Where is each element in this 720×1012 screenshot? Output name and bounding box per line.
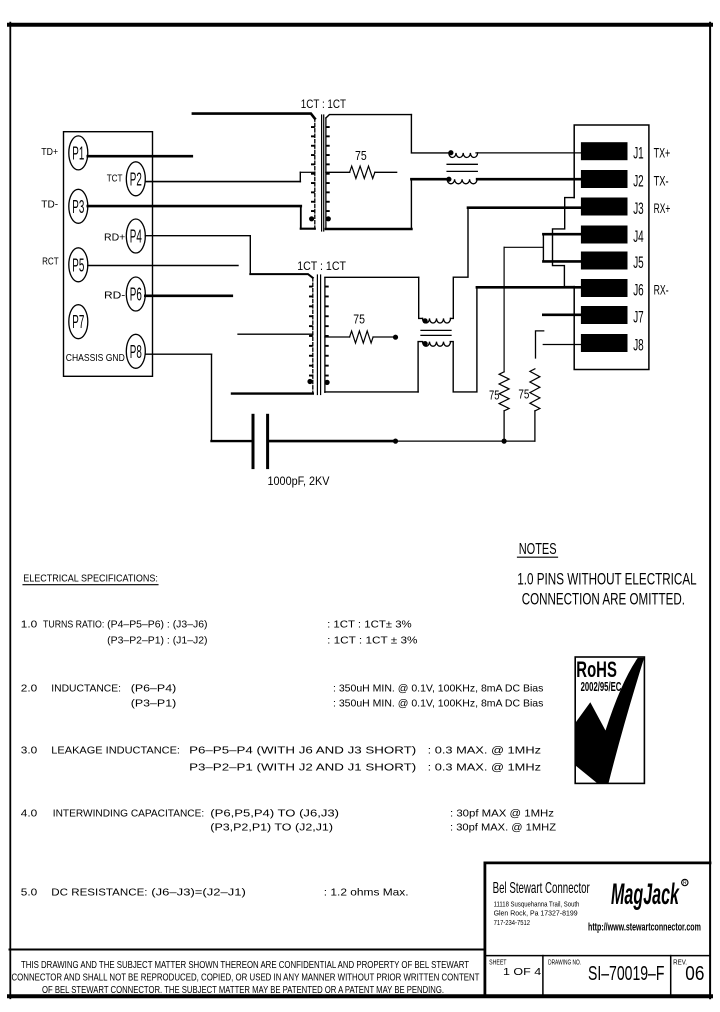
svg-text:: 0.3 MAX. @ 1MHz: : 0.3 MAX. @ 1MHz [428,763,541,774]
svg-text:TX+: TX+ [654,145,671,161]
svg-text:(P4–P5–P6) : (J3–J6): (P4–P5–P6) : (J3–J6) [107,620,207,631]
svg-text:RX-: RX- [654,282,669,298]
svg-text:(P6,P5,P4) TO (J6,J3): (P6,P5,P4) TO (J6,J3) [210,809,339,820]
svg-text:3.0: 3.0 [21,746,38,757]
pin J5 [581,252,644,273]
svg-text:J2: J2 [633,172,644,191]
note 1.0 pins without electrical connection are omitted [517,569,696,608]
wire stair jog near J-block edge [553,198,575,287]
svg-text:717-234-7512: 717-234-7512 [494,918,530,927]
wire P4 (to T2 primary top) [145,235,250,237]
heading NOTES [518,541,558,558]
heading ELECTRICAL SPECIFICATIONS [23,573,158,585]
wire P2 (TCT to T1 center tap) [145,181,300,183]
svg-text:LEAKAGE INDUCTANCE:: LEAKAGE INDUCTANCE: [51,746,180,757]
wire P8 (chassis gnd to cap) [145,353,211,355]
wire P3 (to T1 primary bottom) [88,205,301,208]
svg-text:P6: P6 [130,285,142,305]
pin J4 [581,226,644,247]
wire T1 secondary top rail [326,115,412,118]
spec item 1.0 turns ratio [21,620,418,647]
svg-text:: 30pf MAX @ 1MHz: : 30pf MAX @ 1MHz [450,809,554,820]
spec item 5.0 dc resistance [21,887,409,898]
svg-text:RCT: RCT [42,256,59,268]
pin P5 [69,248,88,282]
pin P2 [126,162,145,196]
svg-text:(J6–J3)=(J2–J1): (J6–J3)=(J2–J1) [151,887,246,898]
svg-text:P6–P5–P4 (WITH J6 AND J3 SHORT: P6–P5–P4 (WITH J6 AND J3 SHORT) [189,746,416,757]
spec item 2.0 inductance [21,684,544,710]
svg-text:P7: P7 [72,312,84,332]
transformer T1 secondary winding [326,118,331,229]
svg-text:http://www.stewartconnector.co: http://www.stewartconnector.com [588,921,701,933]
wire T2 primary bottom rail [232,392,313,394]
svg-text:(P3–P1): (P3–P1) [131,699,176,710]
wire capacitor to termination node [270,440,396,443]
wire J4/J5 node to resistor R3 [504,246,543,248]
svg-text:P1: P1 [72,143,84,163]
wire choke L2 top to J3 (RX+) [451,208,469,319]
RoHS 2002/95/EC logo [575,657,644,783]
svg-text:: 0.3 MAX. @ 1MHz: : 0.3 MAX. @ 1MHz [428,746,541,757]
svg-text:R: R [683,881,687,887]
svg-text:2.0: 2.0 [21,684,38,695]
confidentiality note box [10,950,485,997]
node dot (cap wire / R2 branch) [393,439,398,444]
svg-text:OF BEL STEWART CONNECTOR. THE: OF BEL STEWART CONNECTOR. THE SUBJECT MA… [42,985,444,996]
svg-text:P4: P4 [130,227,142,247]
svg-text:P5: P5 [72,255,84,275]
wire T2 bottom to choke L2 [418,342,422,392]
svg-text:P3–P2–P1 (WITH J2 AND J1 SHORT: P3–P2–P1 (WITH J2 AND J1 SHORT) [189,763,416,774]
svg-text:75: 75 [353,311,365,326]
wire T2 primary center tap (RCT) [238,333,313,335]
svg-text:(P3,P2,P1) TO (J2,J1): (P3,P2,P1) TO (J2,J1) [210,823,333,834]
svg-text:11118 Susquehanna Trail, South: 11118 Susquehanna Trail, South [494,900,580,909]
svg-text:J3: J3 [633,199,644,218]
svg-text:DC RESISTANCE:: DC RESISTANCE: [51,887,147,898]
wire J5 [543,260,581,263]
svg-text:TD-: TD- [41,199,58,211]
pin J2 [581,170,644,191]
wire T1 top to choke L1 [411,115,448,153]
svg-text:06: 06 [685,962,704,985]
svg-text:TX-: TX- [654,173,669,189]
svg-text:CONNECTOR AND SHALL NOT BE REP: CONNECTOR AND SHALL NOT BE REPRODUCED, C… [12,973,480,984]
svg-text:(P6–P4): (P6–P4) [131,684,176,695]
pin P7 [69,305,88,339]
svg-text:Glen Rock, Pa 17327-8199: Glen Rock, Pa 17327-8199 [494,908,578,917]
wire T1 bottom to choke L1 [410,179,412,229]
svg-text:INDUCTANCE:: INDUCTANCE: [51,684,121,695]
svg-text:1.0: 1.0 [21,620,38,631]
svg-text:: 30pf MAX. @ 1MHZ: : 30pf MAX. @ 1MHZ [450,823,556,834]
wire J7/J8 stub to resistor R4 [536,331,544,358]
pin P1 [69,136,88,170]
svg-text:INTERWINDING CAPACITANCE:: INTERWINDING CAPACITANCE: [53,809,204,820]
svg-text:2002/95/EC: 2002/95/EC [581,680,622,694]
common-mode choke L2 (RX) [421,318,451,346]
pin J7 [581,306,644,327]
pin P3 [69,189,88,223]
svg-text:TCT: TCT [107,173,123,185]
svg-text:(P3–P2–P1) : (J1–J2): (P3–P2–P1) : (J1–J2) [107,636,207,647]
svg-text:1CT : 1CT: 1CT : 1CT [297,261,346,273]
svg-text:: 350uH MIN. @ 0.1V, 100KHz,: : 350uH MIN. @ 0.1V, 100KHz, 8mA DC Bias [333,684,543,695]
wire T2 secondary top rail [325,276,419,278]
transformer T2 core [316,275,318,395]
svg-text:J4: J4 [633,227,644,246]
node dot R2 output [393,335,398,340]
svg-text:J6: J6 [633,281,644,300]
wire J4-J5 tie [542,234,544,261]
svg-text:J8: J8 [633,336,644,355]
wire T1 primary top rail [193,114,315,119]
spec item 4.0 interwinding capacitance [21,809,556,834]
capacitor C1 1000pF 2KV [252,415,255,467]
svg-text:ELECTRICAL SPECIFICATIONS:: ELECTRICAL SPECIFICATIONS: [23,573,158,585]
connector block J (jack side) [574,125,649,370]
svg-text:75: 75 [518,387,529,402]
resistor R2 75 (T2 secondary termination) [325,336,350,338]
title block [485,863,710,995]
wire T2 secondary bottom rail [325,391,418,393]
svg-text:75: 75 [355,148,367,163]
svg-text:MagJack: MagJack [611,878,680,911]
drawing no field SI-70019-F [548,959,664,985]
svg-text:RX+: RX+ [654,200,671,216]
svg-text:1 OF 4: 1 OF 4 [503,966,541,978]
pin P4 [126,219,145,253]
svg-text:: 1.2 ohms Max.: : 1.2 ohms Max. [324,887,409,898]
wire chassis to capacitor C1 [212,440,252,442]
svg-text:75: 75 [489,387,500,402]
wire termination bus [396,440,535,442]
resistor R3 75 (Bob Smith J4/J5) [503,247,505,371]
transformer T1 core [321,115,323,231]
MagJack logo [611,878,688,911]
common-mode choke L1 (TX) [446,150,477,184]
wire P5 (RCT stub) [88,265,238,267]
svg-text:SI–70019–F: SI–70019–F [588,962,664,985]
wire J4 [543,233,581,236]
spec item 3.0 leakage inductance [21,746,541,774]
svg-text:1.0 PINS WITHOUT ELECTRICAL: 1.0 PINS WITHOUT ELECTRICAL [517,569,696,588]
resistor R4 75 (Bob Smith J7/J8) [530,369,540,411]
svg-text:TD+: TD+ [41,146,58,158]
svg-text:NOTES: NOTES [519,541,557,558]
svg-text:Bel Stewart Connector: Bel Stewart Connector [493,880,591,897]
svg-text:4.0: 4.0 [21,809,38,820]
svg-text:P2: P2 [130,169,142,189]
svg-text:THIS DRAWING AND THE SUBJECT M: THIS DRAWING AND THE SUBJECT MATTER SHOW… [21,960,469,971]
pin P8 [126,334,145,368]
wire P1 [88,155,192,158]
rev field 06 [673,959,704,985]
wire J7 [543,313,581,316]
pin J3 [581,198,644,219]
svg-text:J1: J1 [633,144,644,163]
transformer T1 primary winding [309,118,315,229]
wire choke L2 bottom to J6 (RX-) [450,287,477,392]
node dot (R3 bottom) [502,439,507,444]
address lines [494,900,580,927]
resistor R1 75 (T1 secondary termination) [326,171,350,173]
wire J2 (TX-) [477,178,581,181]
pin J8 [581,334,644,355]
svg-text:: 350uH MIN. @ 0.1V, 100KHz,: : 350uH MIN. @ 0.1V, 100KHz, 8mA DC Bias [333,699,543,710]
svg-text:CHASSIS GND: CHASSIS GND [66,352,125,364]
wire J1 (TX+) [476,152,581,154]
svg-text:RD+: RD+ [104,231,125,243]
svg-text:J5: J5 [633,253,644,272]
wire T1 secondary bottom rail [326,228,412,231]
svg-text:P3: P3 [72,197,84,217]
pin P6 [126,277,145,311]
svg-text:: 1CT : 1CT ± 3%: : 1CT : 1CT ± 3% [327,636,417,647]
wire J8 [543,344,581,346]
svg-text:RD-: RD- [104,290,126,302]
svg-text:DRAWING NO.: DRAWING NO. [548,959,581,966]
svg-text:RoHS: RoHS [576,657,617,682]
svg-text:5.0: 5.0 [21,887,38,898]
wire T2 top to choke L2 [419,277,423,318]
svg-text:: 1CT : 1CT± 3%: : 1CT : 1CT± 3% [327,620,412,631]
svg-text:TURNS RATIO:: TURNS RATIO: [43,620,104,631]
wire P6 (RD- stub) [145,294,232,297]
connector block P (plug side) [64,132,153,377]
transformer T2 secondary winding [325,278,330,393]
svg-text:P8: P8 [130,342,142,362]
pin J1 [581,142,644,163]
pin J6 [581,279,644,300]
transformer T2 primary winding [307,278,312,393]
svg-text:CONNECTION ARE OMITTED.: CONNECTION ARE OMITTED. [522,590,685,609]
svg-text:1CT : 1CT: 1CT : 1CT [301,99,346,111]
svg-text:J7: J7 [633,308,644,327]
svg-text:1000pF, 2KV: 1000pF, 2KV [268,476,330,488]
sheet field [489,959,541,978]
